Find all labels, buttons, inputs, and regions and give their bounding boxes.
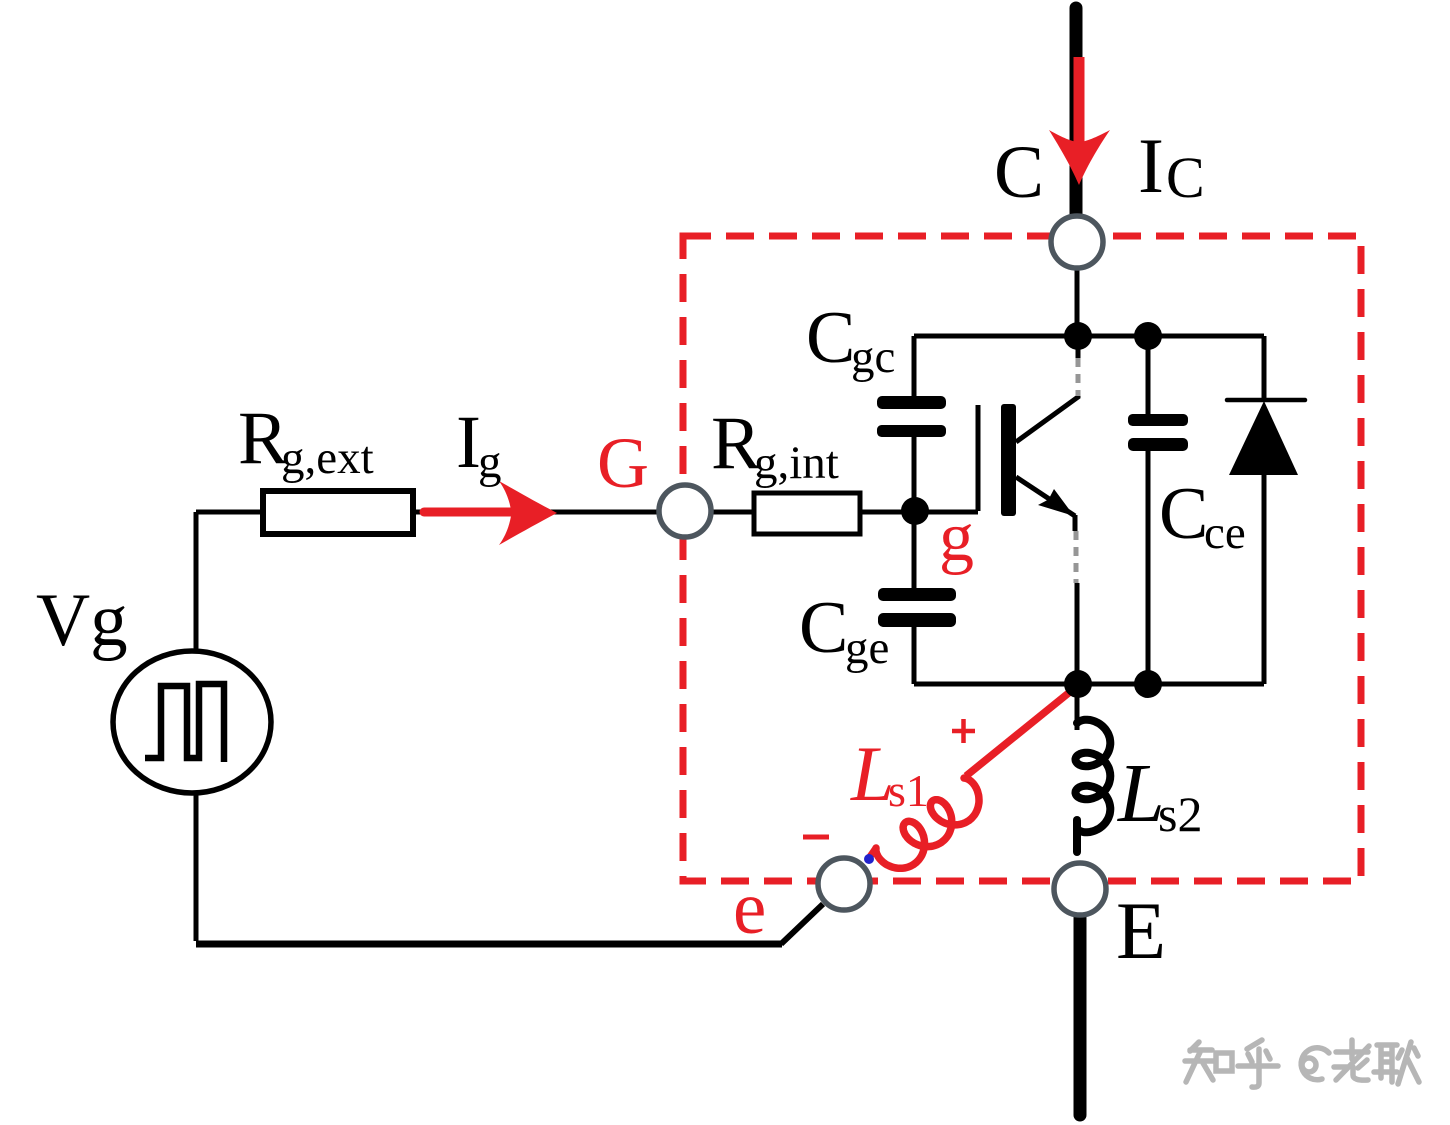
svg-text:I: I (1138, 122, 1164, 209)
svg-text:g,ext: g,ext (281, 432, 374, 484)
svg-text:G: G (597, 423, 649, 503)
svg-text:C: C (1166, 145, 1205, 210)
svg-text:ce: ce (1204, 507, 1246, 559)
svg-text:g,int: g,int (754, 437, 839, 489)
svg-text:e: e (733, 867, 766, 950)
svg-text:ge: ge (845, 622, 889, 674)
svg-text:C: C (806, 297, 855, 379)
svg-text:C: C (799, 587, 848, 669)
svg-text:Vg: Vg (36, 579, 128, 662)
svg-text:g: g (478, 436, 502, 488)
svg-text:s1: s1 (888, 765, 929, 816)
svg-text:C: C (1159, 473, 1208, 555)
svg-text:C: C (994, 131, 1044, 214)
svg-text:s2: s2 (1158, 786, 1202, 842)
svg-text:g: g (939, 499, 974, 576)
svg-text:E: E (1116, 885, 1166, 976)
svg-text:gc: gc (851, 331, 895, 383)
